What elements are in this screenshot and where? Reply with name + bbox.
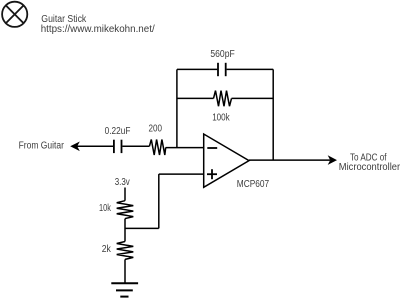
svg-text:3.3v: 3.3v (115, 177, 130, 188)
capacitor 0.22uF plate left (113, 140, 115, 153)
wire branch vertical (158, 174, 160, 228)
feedback right vertical wire (272, 69, 274, 160)
svg-text:100k: 100k (212, 112, 230, 123)
wire capacitor to resistor 200 (122, 145, 149, 147)
svg-text:MCP607: MCP607 (237, 179, 270, 190)
feedback top wire right segment (227, 68, 274, 70)
output arrow (328, 155, 337, 165)
ground symbol (111, 282, 138, 284)
wire branch to op-amp plus input (159, 173, 204, 175)
wire arrow to capacitor C1 (77, 145, 113, 147)
wire 2k to ground (124, 259, 126, 283)
resistor R1 200 (149, 140, 165, 156)
feedback top wire left segment (177, 68, 217, 70)
resistor R4 2k (117, 242, 134, 260)
svg-text:2k: 2k (102, 244, 112, 255)
svg-text:10k: 10k (99, 203, 112, 214)
resistor R2 100k (214, 91, 232, 107)
svg-text:200: 200 (149, 123, 163, 134)
svg-text:0.22uF: 0.22uF (105, 126, 131, 137)
feedback left vertical wire (176, 69, 178, 147)
capacitor 0.22uF plate right (121, 140, 123, 153)
op-amp U1 triangle (204, 134, 249, 187)
wire junction to op-amp non-inverting branch horizontal (125, 227, 159, 229)
op-amp minus sign (207, 147, 217, 149)
resistor R3 10k (117, 201, 134, 219)
svg-text:From Guitar: From Guitar (19, 141, 65, 152)
feedback middle wire right segment (232, 97, 274, 99)
svg-text:Microcontroller: Microcontroller (339, 162, 400, 173)
wire resistor to op-amp inverting input (166, 147, 204, 149)
feedback middle wire left segment (177, 97, 214, 99)
capacitor 560pF plate left (217, 63, 219, 76)
input arrow (From Guitar) (70, 142, 80, 152)
op-amp plus sign (207, 173, 217, 175)
logo circle-X (2, 2, 27, 27)
svg-text:https://www.mikekohn.net/: https://www.mikekohn.net/ (41, 24, 155, 35)
wire 10k to 2k (124, 219, 126, 242)
output wire (249, 159, 330, 161)
wire 3.3v to resistor 10k (124, 188, 126, 201)
capacitor 560pF plate right (225, 63, 227, 76)
svg-text:560pF: 560pF (210, 49, 234, 60)
